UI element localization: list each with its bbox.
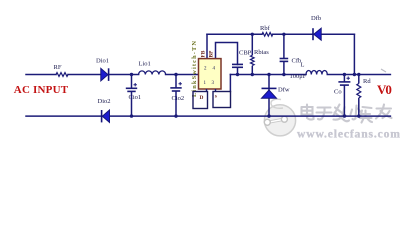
junction node at top-rail drop — [353, 73, 356, 76]
wire top rail corner down — [353, 34, 355, 74]
resistor Rbias — [251, 34, 255, 74]
svg-text:Lio1: Lio1 — [139, 61, 151, 68]
watermark url text — [297, 127, 402, 141]
pin box D — [193, 92, 208, 109]
inductor Lio1 — [139, 71, 166, 75]
svg-text:s: s — [215, 94, 217, 100]
svg-text:Rbf: Rbf — [260, 25, 271, 32]
svg-text:Rd: Rd — [363, 78, 371, 85]
svg-text:Rbias: Rbias — [254, 49, 269, 56]
wire top-left AC line segment 1 — [26, 74, 56, 76]
svg-text:Dio1: Dio1 — [96, 58, 109, 65]
svg-text:RF: RF — [54, 64, 62, 71]
svg-text:Cio2: Cio2 — [172, 95, 185, 102]
svg-text:www.elecfans.com: www.elecfans.com — [297, 127, 401, 140]
wire FB pin riser — [206, 34, 208, 58]
watermark chinese text 电子发烧友 — [302, 105, 393, 124]
svg-text:Dio2: Dio2 — [98, 98, 111, 105]
svg-text:FB: FB — [201, 50, 207, 57]
wire RF to Dio1 — [68, 74, 101, 76]
wire Dio1 to IC left — [109, 74, 139, 76]
svg-text:CBP: CBP — [239, 50, 252, 57]
resistor Rd — [357, 75, 361, 117]
diode Dfw — [262, 75, 277, 117]
wire bottom rail — [26, 115, 102, 117]
wire BP pin loop — [216, 43, 238, 65]
wire mid rail right — [230, 74, 306, 76]
svg-text:D: D — [200, 95, 204, 101]
capacitor CBP — [232, 64, 243, 74]
svg-text:L: L — [301, 62, 305, 69]
svg-text:Cio1: Cio1 — [129, 94, 142, 101]
diode Dio2 — [102, 110, 110, 122]
inductor L — [306, 70, 327, 74]
svg-text:AC INPUT: AC INPUT — [14, 84, 69, 96]
wire top feedback rail — [207, 33, 262, 35]
watermark sparkle tick — [381, 69, 386, 72]
capacitor Cio2 — [170, 75, 182, 117]
resistor Rbf — [262, 33, 272, 37]
svg-text:BP: BP — [209, 50, 215, 58]
capacitor Cio1 — [126, 75, 137, 117]
resistor RF — [56, 73, 68, 77]
diode Dio1 — [101, 68, 109, 81]
svg-text:Dfw: Dfw — [278, 87, 290, 94]
svg-text:100μF: 100μF — [290, 73, 307, 80]
IC bottom pin stub S — [215, 89, 217, 92]
watermark logo circle — [264, 99, 295, 136]
capacitor Co — [338, 75, 350, 117]
IC bottom pin stub D — [206, 89, 208, 92]
svg-text:Dfb: Dfb — [311, 15, 321, 22]
pin box S — [213, 92, 231, 108]
svg-text:Co: Co — [334, 89, 342, 96]
wire drop to S-pin box — [229, 75, 231, 92]
svg-text:V0: V0 — [377, 82, 391, 97]
IC U1 LinkSwitch-TN body — [199, 59, 222, 89]
capacitor Cfb — [280, 34, 289, 74]
svg-text:LinkSwitch-TN: LinkSwitch-TN — [191, 41, 198, 97]
diode Dfb — [313, 28, 321, 40]
